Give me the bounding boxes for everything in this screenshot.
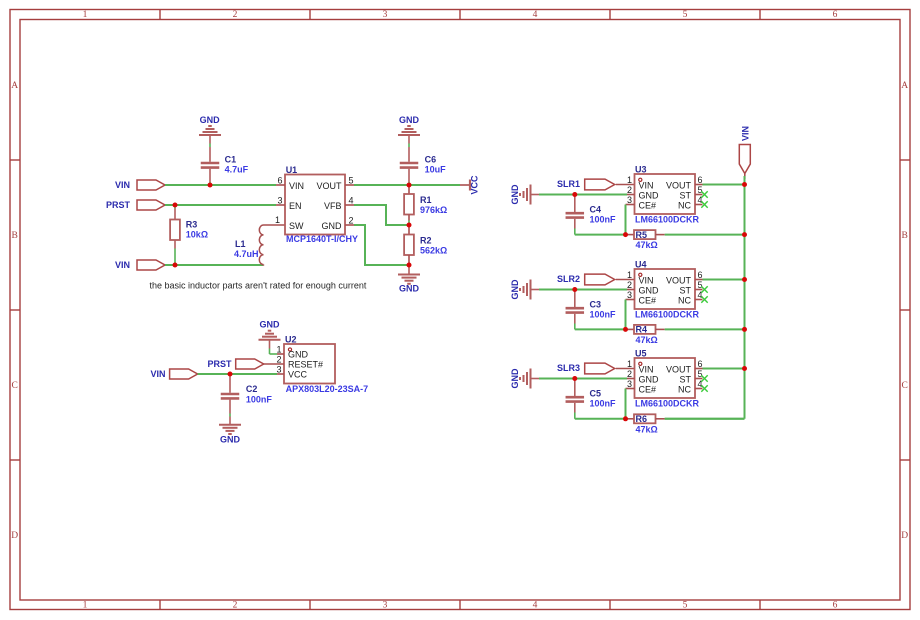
svg-text:GND: GND — [399, 115, 420, 125]
pin 3 CE# — [626, 195, 657, 211]
pin 1 VIN — [627, 270, 654, 286]
svg-text:4.7uH: 4.7uH — [234, 249, 259, 259]
svg-text:GND: GND — [399, 283, 420, 293]
wire — [408, 182, 410, 185]
wire VIN to pin3 — [198, 373, 277, 375]
svg-text:5: 5 — [683, 10, 688, 20]
svg-text:NC: NC — [678, 296, 691, 306]
svg-text:3: 3 — [383, 600, 388, 610]
svg-text:VCC: VCC — [288, 370, 308, 380]
IC U3 LM66100DCKR — [635, 165, 700, 225]
IC U1 MCP1640T-I/CHY — [285, 165, 358, 244]
node junction R1/R2/VFB — [407, 223, 412, 228]
wire C to R row — [575, 413, 626, 419]
no-connect flag pin4 — [701, 296, 707, 302]
svg-text:the basic inductor parts aren': the basic inductor parts aren't rated fo… — [150, 281, 367, 291]
wire GND to U3 pin2 — [539, 194, 627, 196]
svg-text:LM66100DCKR: LM66100DCKR — [635, 215, 700, 225]
svg-text:3: 3 — [277, 196, 282, 206]
wire C to R row — [575, 229, 626, 235]
node junction CE#/R4 — [623, 327, 628, 332]
wire — [174, 205, 176, 209]
svg-text:GND: GND — [510, 368, 520, 389]
pin 6 VOUT — [666, 359, 703, 375]
svg-text:SLR2: SLR2 — [557, 274, 580, 284]
svg-text:100nF: 100nF — [590, 214, 617, 224]
svg-text:1: 1 — [83, 600, 88, 610]
svg-text:GND: GND — [510, 279, 520, 300]
net flag VIN (U2) — [150, 369, 197, 379]
ground (above U2 pin1) — [259, 319, 281, 348]
pin 5 ST — [679, 185, 702, 201]
svg-text:2: 2 — [276, 355, 281, 365]
pin 5 ST — [679, 369, 702, 385]
pin 3 EN — [276, 196, 302, 212]
IC U5 LM66100DCKR — [635, 349, 700, 409]
svg-text:2: 2 — [627, 280, 632, 290]
svg-text:47kΩ: 47kΩ — [636, 240, 658, 250]
resistor R2 562k — [404, 225, 447, 265]
svg-text:CE#: CE# — [639, 385, 657, 395]
svg-text:NC: NC — [678, 385, 691, 395]
capacitor C6 10uF — [400, 147, 446, 182]
svg-text:MCP1640T-I/CHY: MCP1640T-I/CHY — [286, 234, 358, 244]
wire — [209, 182, 211, 185]
resistor R5 47k — [626, 230, 665, 250]
pin 2 RESET# — [264, 355, 324, 370]
no-connect flag pin5 — [701, 191, 707, 197]
svg-text:ST: ST — [679, 375, 691, 385]
capacitor C4 100nF — [566, 195, 616, 229]
pin 4 VFB — [324, 196, 354, 212]
no-connect flag pin4 — [701, 385, 707, 391]
svg-text:PRST: PRST — [207, 359, 232, 369]
svg-text:A: A — [901, 81, 908, 91]
wire GND pin2 to ground — [354, 224, 409, 266]
svg-text:EN: EN — [289, 201, 302, 211]
svg-text:4.7uF: 4.7uF — [225, 165, 249, 175]
capacitor C3 100nF — [566, 290, 616, 324]
svg-text:C4: C4 — [590, 204, 602, 214]
resistor R6 47k — [626, 414, 665, 434]
svg-text:L1: L1 — [235, 239, 246, 249]
wire CE# down — [625, 205, 627, 235]
node junction PRST/R3 — [173, 203, 178, 208]
capacitor C1 4.7uF — [201, 147, 249, 182]
wire CE# down — [625, 300, 627, 330]
wire VOUT to VIN rail — [703, 368, 745, 370]
pin 6 VIN — [276, 176, 304, 192]
node junction GND/C4 — [572, 192, 577, 197]
pin 2 GND — [627, 185, 659, 201]
svg-text:ST: ST — [679, 191, 691, 201]
svg-text:VOUT: VOUT — [666, 276, 692, 286]
svg-text:3: 3 — [627, 379, 632, 389]
svg-text:GND: GND — [200, 115, 221, 125]
net flag VIN (lower) — [115, 260, 165, 270]
svg-text:VIN: VIN — [289, 181, 304, 191]
pin 2 GND — [322, 216, 355, 232]
net flag SLR2 — [557, 274, 615, 285]
svg-text:B: B — [12, 231, 18, 241]
svg-text:VIN: VIN — [639, 181, 654, 191]
svg-text:VIN: VIN — [741, 126, 751, 141]
svg-text:47kΩ: 47kΩ — [636, 335, 658, 345]
svg-text:SW: SW — [289, 221, 304, 231]
pin 3 CE# — [626, 379, 657, 395]
wire VIN rail — [665, 176, 745, 419]
svg-text:VIN: VIN — [115, 260, 130, 270]
pin 3 VCC — [276, 365, 307, 380]
node junction GND/C3 — [572, 287, 577, 292]
svg-text:CE#: CE# — [639, 296, 657, 306]
pin 2 GND — [627, 280, 659, 296]
note text — [150, 281, 367, 291]
svg-text:562kΩ: 562kΩ — [420, 246, 447, 256]
IC U2 APX803L20-23SA-7 — [284, 334, 368, 394]
node junction CE#/R5 — [623, 232, 628, 237]
node junction rail/VOUT — [742, 277, 747, 282]
svg-text:APX803L20-23SA-7: APX803L20-23SA-7 — [286, 384, 369, 394]
ground (below R2) — [398, 265, 420, 293]
wire CE# down — [625, 389, 627, 419]
node junction VIN/C2 — [228, 372, 233, 377]
net flag VIN — [115, 180, 165, 190]
ground (above C6) — [398, 115, 420, 144]
ground (above C1) — [199, 115, 221, 144]
svg-text:6: 6 — [277, 176, 282, 186]
svg-text:GND: GND — [260, 319, 281, 329]
svg-text:B: B — [902, 231, 908, 241]
svg-text:6: 6 — [833, 10, 838, 20]
svg-text:6: 6 — [698, 359, 703, 369]
svg-text:R3: R3 — [186, 220, 198, 230]
svg-text:GND: GND — [639, 375, 660, 385]
node junction rail/VOUT — [742, 182, 747, 187]
node junction VOUT/C6/R1 — [407, 183, 412, 188]
wire VOUT to VIN rail — [703, 279, 745, 281]
svg-text:1: 1 — [627, 175, 632, 185]
svg-text:10uF: 10uF — [425, 165, 447, 175]
svg-text:4: 4 — [349, 196, 354, 206]
svg-text:5: 5 — [698, 369, 703, 379]
ground (left of U5) — [510, 368, 539, 389]
svg-text:5: 5 — [683, 600, 688, 610]
pin 1 VIN — [627, 359, 654, 375]
resistor R4 47k — [626, 325, 665, 345]
svg-text:GND: GND — [220, 435, 241, 445]
power flag VCC — [460, 175, 480, 195]
svg-text:U4: U4 — [635, 260, 647, 270]
wire R6 to VIN rail — [665, 418, 745, 420]
svg-text:3: 3 — [627, 195, 632, 205]
pin 3 CE# — [626, 290, 657, 306]
wire — [270, 349, 278, 355]
svg-text:6: 6 — [698, 270, 703, 280]
svg-text:C: C — [12, 381, 18, 391]
net flag PRST (U2) — [207, 359, 263, 369]
wire R4 to VIN rail — [665, 328, 745, 330]
svg-text:100nF: 100nF — [590, 309, 617, 319]
net flag SLR1 — [557, 179, 615, 190]
pin 4 NC — [678, 290, 703, 306]
no-connect flag pin4 — [701, 201, 707, 207]
capacitor C2 100nF — [221, 374, 273, 425]
svg-text:4: 4 — [533, 10, 538, 20]
svg-text:1: 1 — [276, 345, 281, 355]
pin 1 SW — [275, 215, 304, 231]
svg-text:R1: R1 — [420, 195, 432, 205]
wire — [408, 144, 410, 148]
wire VIN to L1 — [165, 264, 264, 266]
wire GND to U4 pin2 — [539, 289, 627, 291]
svg-text:4: 4 — [533, 600, 538, 610]
svg-text:976kΩ: 976kΩ — [420, 205, 447, 215]
svg-text:C: C — [902, 381, 908, 391]
svg-text:GND: GND — [322, 221, 343, 231]
svg-text:2: 2 — [627, 185, 632, 195]
svg-text:VOUT: VOUT — [666, 181, 692, 191]
resistor R1 976k — [404, 185, 447, 221]
svg-text:5: 5 — [698, 185, 703, 195]
wire C to R row — [575, 324, 626, 330]
svg-text:CE#: CE# — [639, 201, 657, 211]
svg-text:U1: U1 — [286, 165, 298, 175]
wire — [209, 144, 211, 148]
pin 4 NC — [678, 379, 703, 395]
svg-text:C3: C3 — [590, 299, 602, 309]
ground (left of U4) — [510, 279, 539, 300]
svg-text:D: D — [11, 531, 18, 541]
svg-text:C1: C1 — [225, 154, 237, 164]
pin 1 VIN — [627, 175, 654, 191]
svg-text:R5: R5 — [636, 230, 648, 240]
svg-text:3: 3 — [383, 10, 388, 20]
svg-text:A: A — [11, 81, 18, 91]
wire VIN to pin6 — [165, 184, 276, 186]
wire VFB — [354, 204, 409, 226]
node junction rail/VOUT — [742, 366, 747, 371]
node junction VIN/R3 — [173, 263, 178, 268]
svg-text:2: 2 — [233, 10, 238, 20]
ground (below C2) — [219, 425, 241, 445]
wire R5 to VIN rail — [665, 234, 745, 236]
svg-text:5: 5 — [349, 176, 354, 186]
wire VOUT to VIN rail — [703, 184, 745, 186]
svg-text:VIN: VIN — [115, 180, 130, 190]
svg-text:VIN: VIN — [639, 365, 654, 375]
node junction GND/C5 — [572, 376, 577, 381]
svg-text:C2: C2 — [246, 384, 258, 394]
node junction rail/R4 — [742, 327, 747, 332]
inductor L1 4.7uH — [234, 225, 285, 266]
svg-text:U3: U3 — [635, 165, 647, 175]
svg-text:10kΩ: 10kΩ — [186, 230, 208, 240]
svg-text:C5: C5 — [590, 388, 602, 398]
wire SLR3 to pin1 — [616, 368, 635, 370]
pin 5 VOUT — [316, 176, 354, 192]
pin 2 GND — [627, 369, 659, 385]
wire GND to U5 pin2 — [539, 378, 627, 380]
svg-text:47kΩ: 47kΩ — [636, 424, 658, 434]
svg-text:SLR3: SLR3 — [557, 363, 580, 373]
svg-text:2: 2 — [349, 216, 354, 226]
IC U4 LM66100DCKR — [635, 260, 700, 320]
wire PRST to pin3 — [165, 204, 276, 206]
svg-text:GND: GND — [639, 286, 660, 296]
svg-text:LM66100DCKR: LM66100DCKR — [635, 399, 700, 409]
resistor R3 10k — [170, 209, 208, 249]
svg-text:U5: U5 — [635, 349, 647, 359]
svg-text:1: 1 — [627, 270, 632, 280]
svg-text:U2: U2 — [285, 334, 297, 344]
wire SLR1 to pin1 — [616, 184, 635, 186]
svg-text:RESET#: RESET# — [288, 360, 323, 370]
svg-text:GND: GND — [510, 184, 520, 205]
svg-text:6: 6 — [833, 600, 838, 610]
pin 6 VOUT — [666, 175, 703, 191]
svg-text:R6: R6 — [636, 414, 648, 424]
svg-text:GND: GND — [288, 350, 309, 360]
wire — [174, 249, 176, 266]
svg-text:VIN: VIN — [639, 276, 654, 286]
svg-text:SLR1: SLR1 — [557, 179, 580, 189]
wire VOUT to VCC — [354, 184, 460, 186]
pin 5 ST — [679, 280, 702, 296]
pin 1 GND — [276, 345, 308, 360]
svg-text:6: 6 — [698, 175, 703, 185]
wire SLR2 to pin1 — [616, 279, 635, 281]
node junction rail/R5 — [742, 232, 747, 237]
node junction C1/VIN — [208, 183, 213, 188]
svg-text:VOUT: VOUT — [316, 181, 342, 191]
svg-text:NC: NC — [678, 201, 691, 211]
svg-text:1: 1 — [627, 359, 632, 369]
svg-text:R2: R2 — [420, 236, 432, 246]
svg-text:5: 5 — [698, 280, 703, 290]
svg-text:2: 2 — [627, 369, 632, 379]
svg-text:VCC: VCC — [470, 175, 480, 195]
svg-text:VIN: VIN — [150, 369, 165, 379]
svg-text:100nF: 100nF — [246, 394, 273, 404]
ground (left of U3) — [510, 184, 539, 205]
net flag SLR3 — [557, 363, 615, 374]
svg-text:3: 3 — [276, 365, 281, 375]
svg-text:1: 1 — [83, 10, 88, 20]
svg-text:3: 3 — [627, 290, 632, 300]
svg-text:GND: GND — [639, 191, 660, 201]
no-connect flag pin5 — [701, 286, 707, 292]
net flag PRST — [106, 200, 165, 210]
svg-text:VFB: VFB — [324, 201, 342, 211]
svg-text:C6: C6 — [425, 154, 437, 164]
svg-text:VOUT: VOUT — [666, 365, 692, 375]
node junction CE#/R6 — [623, 416, 628, 421]
node junction R2/GND — [407, 263, 412, 268]
svg-text:2: 2 — [233, 600, 238, 610]
capacitor C5 100nF — [566, 379, 616, 413]
svg-text:R4: R4 — [636, 325, 648, 335]
power flag VIN (top right) — [739, 126, 750, 179]
svg-text:1: 1 — [275, 215, 280, 225]
no-connect flag pin5 — [701, 375, 707, 381]
pin 6 VOUT — [666, 270, 703, 286]
svg-text:LM66100DCKR: LM66100DCKR — [635, 310, 700, 320]
pin 4 NC — [678, 195, 703, 211]
svg-text:PRST: PRST — [106, 200, 131, 210]
svg-text:ST: ST — [679, 286, 691, 296]
svg-text:D: D — [901, 531, 908, 541]
svg-text:100nF: 100nF — [590, 398, 617, 408]
